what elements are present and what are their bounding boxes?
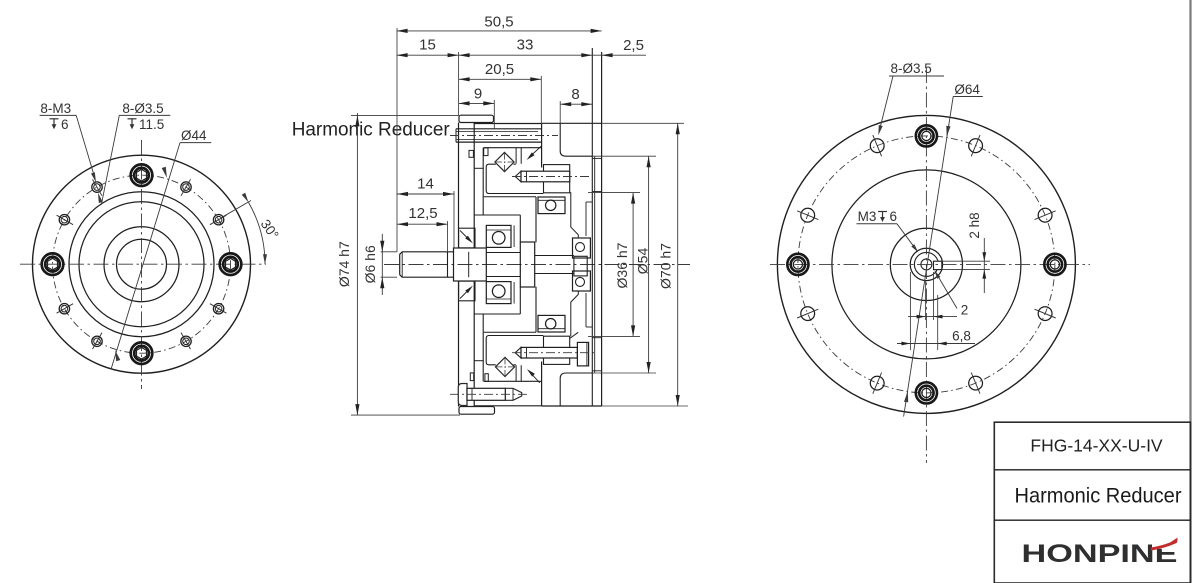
M3 tapped hole at 180 deg <box>791 257 805 271</box>
dia3.5 hole at 202.5 deg <box>801 307 815 321</box>
input support bearing (bottom) <box>486 282 511 304</box>
svg-text:20,5: 20,5 <box>485 61 514 78</box>
bearing top-right (ball) <box>538 197 565 214</box>
housing bottom edge <box>542 405 602 407</box>
hub boss circle <box>890 228 962 300</box>
housing outer circle <box>777 115 1075 413</box>
output shaft dia6 <box>400 252 454 277</box>
tapped hole at 300 deg <box>181 336 191 346</box>
svg-text:Harmonic Reducer: Harmonic Reducer <box>1015 485 1182 508</box>
bearing pocket (bottom) <box>486 336 543 365</box>
retaining notches <box>469 150 473 157</box>
concentric circles <box>69 192 214 337</box>
svg-text:Ø44: Ø44 <box>181 128 207 143</box>
middle view: cross-section <box>292 14 690 416</box>
svg-text:Ø70 h7: Ø70 h7 <box>658 243 674 289</box>
svg-text:M3: M3 <box>858 209 877 224</box>
keyway <box>934 261 942 269</box>
bolt circle dia64 (dashed) <box>798 136 1055 393</box>
socket screw at 270 deg <box>134 346 149 361</box>
bolt circle (dashed) <box>53 175 231 353</box>
circular spline block (bottom) <box>474 405 541 407</box>
screw hole walls above cone (top) <box>515 148 517 164</box>
svg-text:8: 8 <box>571 86 579 103</box>
svg-text:Ø6 h6: Ø6 h6 <box>362 245 378 283</box>
tapped hole at 30 deg <box>213 215 223 225</box>
leader 8-dia3.5 <box>101 115 119 204</box>
dia64 diameter line <box>904 97 954 417</box>
motor flange plate <box>591 48 593 406</box>
housing step dia54 (bottom) <box>560 373 592 406</box>
dimension dia54 <box>592 155 656 157</box>
dia3.5 hole at 157.5 deg <box>801 208 815 222</box>
svg-text:12,5: 12,5 <box>408 205 437 222</box>
socket screw at 90 deg <box>134 168 149 183</box>
housing profile behind boss (top) <box>570 193 579 238</box>
diaphragm jog (bottom) <box>474 360 484 362</box>
svg-text:6: 6 <box>890 209 898 224</box>
dia3.5 hole at 112.5 deg <box>870 139 884 153</box>
dimension 15 <box>458 52 460 115</box>
shaft hub sleeve <box>454 248 487 281</box>
svg-text:6,8: 6,8 <box>952 329 971 344</box>
fastening screw bottom-right (points left, cone tip) <box>515 347 521 358</box>
dimension 20,5 <box>459 78 542 80</box>
dimension dia74 h7 <box>351 114 459 116</box>
dimension 12,5 <box>447 221 449 252</box>
svg-text:8-Ø3.5: 8-Ø3.5 <box>122 101 163 116</box>
inner face circle <box>832 170 1021 359</box>
diaphragm jog (top) <box>474 167 484 169</box>
dimension dia6 h6 <box>381 251 397 253</box>
M3 tapped hole at 90 deg <box>919 129 933 143</box>
svg-text:14: 14 <box>417 176 434 193</box>
tapped hole at 60 deg <box>181 182 191 192</box>
dimension 9 <box>459 102 495 104</box>
mesh arrow (top) <box>530 146 541 156</box>
leader 8-M3 <box>76 115 94 176</box>
horizontal centerline <box>770 263 1090 265</box>
svg-text:Ø64: Ø64 <box>954 82 980 97</box>
dimension 2 h8 (keyway width) <box>942 260 990 262</box>
svg-text:2 h8: 2 h8 <box>967 212 982 238</box>
dimension 2,5 <box>592 54 646 56</box>
svg-text:FHG-14-XX-U-IV: FHG-14-XX-U-IV <box>1030 436 1163 456</box>
socket screw at 180 deg <box>45 257 60 272</box>
vertical centerline <box>141 140 143 389</box>
tapped hole at 240 deg <box>92 336 102 346</box>
tapped hole at 150 deg <box>59 215 69 225</box>
dimension 14 <box>453 191 455 248</box>
cross roller diamond (bottom) <box>495 357 514 376</box>
svg-text:Ø74 h7: Ø74 h7 <box>336 241 352 287</box>
input shaft right portion <box>486 252 520 254</box>
circular spline block (top) <box>474 123 541 125</box>
dimension dia36 h7 <box>588 192 640 194</box>
horizontal centerline <box>20 263 266 265</box>
clamp square with arrow (bottom) <box>459 281 475 301</box>
main axis centerline <box>384 264 690 266</box>
dimension dia70 h7 <box>602 122 684 124</box>
title block <box>994 422 1190 583</box>
svg-text:50,5: 50,5 <box>484 14 513 31</box>
leader for keyway <box>936 272 958 309</box>
housing profile behind boss (bottom) <box>571 292 579 337</box>
tapped hole at 330 deg <box>213 304 223 314</box>
svg-text:33: 33 <box>517 37 534 54</box>
svg-text:8-Ø3.5: 8-Ø3.5 <box>891 61 932 76</box>
drawing frame right border <box>1189 0 1191 583</box>
dia3.5 hole at 67.5 deg <box>969 139 983 153</box>
svg-text:Ø54: Ø54 <box>635 248 651 275</box>
flange top lip <box>459 115 494 122</box>
bearing pocket (top) <box>486 164 543 193</box>
flange outer circle <box>33 155 251 373</box>
M3 screw section band (top) <box>456 128 542 130</box>
svg-text:6: 6 <box>61 117 69 132</box>
top dimension 50,5 <box>396 28 398 252</box>
svg-text:2: 2 <box>961 303 969 318</box>
tapped hole at 120 deg <box>92 182 102 192</box>
svg-text:30°: 30° <box>258 217 282 242</box>
left flange plate <box>458 123 460 249</box>
dia3.5 hole at 292.5 deg <box>969 376 983 390</box>
dimension 6,8 <box>909 272 911 350</box>
right view: motor-side face <box>770 61 1090 463</box>
housing top edge <box>542 122 602 124</box>
dimension 8 <box>559 101 561 123</box>
input support bearing (top) <box>486 225 511 247</box>
svg-text:8-M3: 8-M3 <box>40 101 71 116</box>
bearing bottom-right (ball) <box>538 315 565 332</box>
dimension 33 <box>459 54 593 56</box>
vertical centerline <box>925 68 927 463</box>
svg-text:Harmonic Reducer: Harmonic Reducer <box>292 119 451 140</box>
socket screw at 0 deg <box>223 257 238 272</box>
flexspline thin wall (top) <box>484 196 536 198</box>
mesh arrow (bottom) <box>531 373 540 383</box>
tapped hole at 210 deg <box>59 304 69 314</box>
cross roller diamond (top) <box>495 152 514 171</box>
M3 tapped hole at 270 deg <box>919 386 933 400</box>
shaft bore circles <box>910 248 942 280</box>
screw boss top-right <box>544 165 570 193</box>
svg-text:11.5: 11.5 <box>139 117 164 132</box>
output support bearing (right) <box>573 238 591 258</box>
M3 screw (bottom) with pan head and cone point <box>458 384 467 406</box>
dia3.5 hole at 247.5 deg <box>870 376 884 390</box>
dimension 2 (keyway offset) <box>933 272 935 320</box>
svg-text:2,5: 2,5 <box>623 37 644 54</box>
housing step dia54 (top) <box>560 123 592 156</box>
M3 tapped hole at 0 deg <box>1048 257 1062 271</box>
dia3.5 hole at 337.5 deg <box>1038 307 1052 321</box>
30 deg angular dimension <box>223 201 251 217</box>
svg-text:Ø36 h7: Ø36 h7 <box>614 242 630 288</box>
dia3.5 hole at 22.5 deg <box>1038 208 1052 222</box>
left view: output flange face <box>20 101 282 389</box>
screw boss bottom-right <box>544 336 570 364</box>
flexspline thin wall (bottom) <box>484 331 536 333</box>
svg-text:9: 9 <box>474 86 482 103</box>
fastening screw top-right (points left, cone tip) <box>515 171 521 182</box>
svg-text:15: 15 <box>419 37 436 54</box>
clamp square with arrow (top) <box>459 228 475 248</box>
screw hole walls below cone (bottom) <box>515 365 517 381</box>
dia44 leader line across bolt circle <box>111 143 180 370</box>
flange bottom lip <box>459 407 495 415</box>
